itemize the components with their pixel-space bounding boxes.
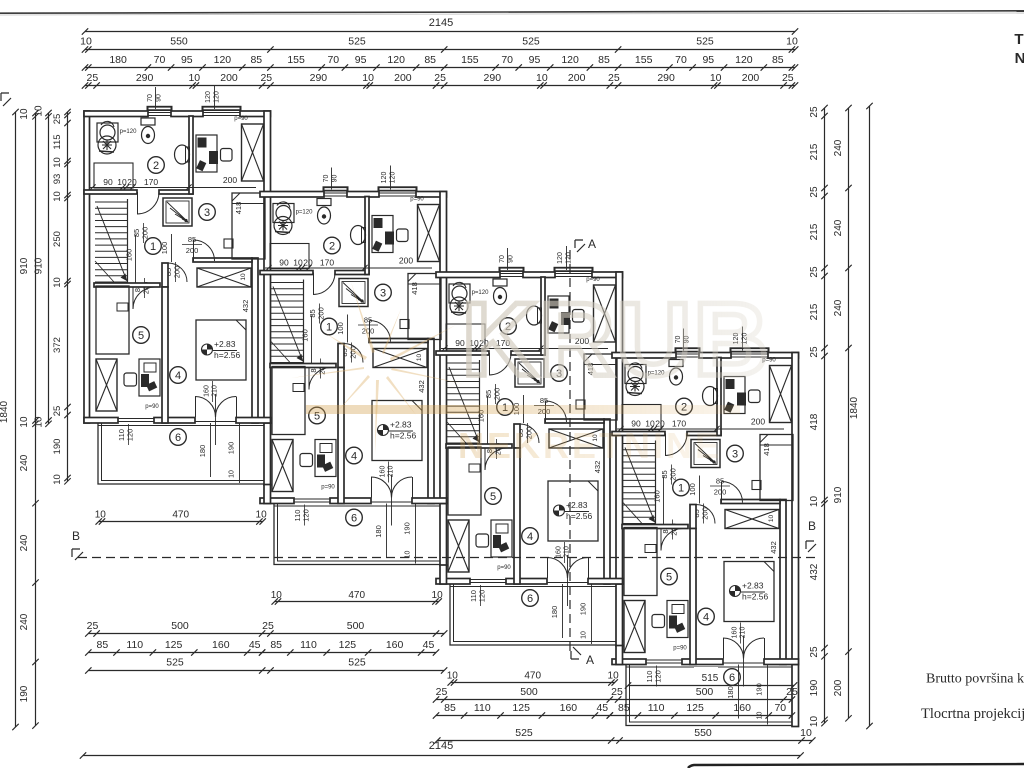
svg-text:10: 10: [608, 671, 620, 682]
svg-text:25: 25: [611, 686, 623, 698]
svg-text:155: 155: [287, 54, 305, 66]
watermark logo star: [291, 282, 464, 454]
svg-text:2145: 2145: [429, 17, 453, 29]
svg-text:200: 200: [833, 679, 844, 696]
svg-text:10: 10: [52, 474, 63, 485]
svg-text:70: 70: [327, 54, 339, 66]
svg-text:B: B: [808, 519, 816, 533]
svg-text:70: 70: [774, 702, 786, 714]
svg-text:95: 95: [355, 54, 367, 66]
svg-text:85: 85: [772, 54, 784, 66]
svg-text:85: 85: [97, 639, 109, 651]
svg-text:200: 200: [742, 72, 760, 84]
svg-text:10: 10: [19, 108, 30, 120]
svg-text:25: 25: [782, 72, 794, 84]
svg-text:418: 418: [809, 413, 820, 430]
top chain row3: [85, 67, 795, 69]
apartment unit 4: [612, 327, 799, 727]
svg-text:910: 910: [833, 486, 844, 503]
svg-text:120: 120: [387, 54, 405, 66]
left chain 1840: [15, 112, 17, 727]
svg-text:470: 470: [348, 590, 365, 601]
svg-text:160: 160: [212, 639, 230, 651]
svg-text:25: 25: [434, 72, 446, 84]
svg-text:160: 160: [733, 702, 751, 714]
svg-text:550: 550: [170, 36, 188, 48]
svg-text:95: 95: [529, 54, 541, 66]
svg-text:85: 85: [424, 54, 436, 66]
svg-text:1840: 1840: [0, 400, 10, 423]
svg-text:10: 10: [256, 510, 268, 521]
svg-text:10: 10: [271, 590, 283, 601]
svg-text:25: 25: [436, 686, 448, 698]
svg-text:10: 10: [432, 590, 444, 601]
svg-text:525: 525: [522, 36, 540, 48]
svg-text:372: 372: [52, 337, 63, 353]
svg-text:240: 240: [19, 534, 30, 551]
svg-text:10: 10: [52, 277, 63, 288]
svg-text:A: A: [586, 653, 594, 667]
svg-text:85: 85: [618, 702, 630, 714]
left chain 910/240: [35, 113, 37, 726]
top chain row2: [85, 49, 795, 51]
svg-text:10: 10: [710, 72, 722, 84]
svg-text:25: 25: [52, 114, 63, 125]
svg-text:NEKRETNINE: NEKRETNINE: [458, 425, 722, 466]
svg-text:85: 85: [250, 54, 262, 66]
svg-text:85: 85: [444, 702, 456, 714]
svg-text:290: 290: [310, 72, 328, 84]
svg-text:Tlocrtna projekcija: Tlocrtna projekcija: [921, 706, 1024, 722]
svg-text:500: 500: [171, 620, 189, 632]
svg-text:70: 70: [154, 54, 166, 66]
svg-text:25: 25: [262, 620, 274, 632]
right chain 1840: [869, 106, 871, 726]
svg-text:110: 110: [126, 639, 143, 651]
svg-text:25: 25: [809, 266, 820, 278]
top-left corner mark: [1, 93, 11, 106]
left chain 910 second: [48, 113, 50, 424]
svg-text:200: 200: [394, 72, 412, 84]
svg-text:125: 125: [512, 702, 530, 714]
svg-text:93: 93: [52, 174, 63, 185]
svg-text:110: 110: [300, 639, 317, 651]
svg-text:240: 240: [833, 219, 844, 236]
svg-text:25: 25: [809, 646, 820, 658]
svg-text:10: 10: [536, 72, 548, 84]
svg-text:95: 95: [181, 54, 193, 66]
scan top border: [0, 11, 1024, 13]
unit1 left outer wall: [84, 111, 90, 423]
svg-text:525: 525: [696, 36, 714, 48]
svg-text:70: 70: [501, 54, 513, 66]
svg-text:25: 25: [809, 106, 820, 118]
svg-text:25: 25: [52, 406, 63, 417]
svg-text:45: 45: [596, 702, 608, 714]
section line A: [569, 250, 571, 655]
svg-text:125: 125: [686, 702, 704, 714]
right chain 240s: [848, 108, 850, 718]
bottom chains units 1-2: [88, 633, 444, 635]
svg-text:290: 290: [657, 72, 675, 84]
svg-text:190: 190: [52, 439, 63, 455]
svg-text:6: 6: [729, 672, 735, 684]
svg-text:500: 500: [347, 620, 365, 632]
svg-text:160: 160: [386, 639, 404, 651]
svg-text:525: 525: [166, 657, 184, 669]
svg-text:25: 25: [608, 72, 620, 84]
terrace dim rows: [99, 521, 263, 523]
svg-text:125: 125: [339, 639, 357, 651]
svg-text:KRUB: KRUB: [462, 282, 770, 398]
svg-text:155: 155: [461, 54, 479, 66]
svg-text:125: 125: [165, 639, 183, 651]
svg-text:190: 190: [19, 685, 30, 702]
svg-text:25: 25: [87, 72, 99, 84]
svg-text:10: 10: [447, 671, 459, 682]
svg-text:500: 500: [520, 686, 538, 698]
svg-text:B: B: [72, 529, 80, 543]
svg-text:115: 115: [52, 134, 63, 149]
svg-text:215: 215: [809, 223, 820, 240]
svg-text:500: 500: [696, 686, 714, 698]
svg-text:85: 85: [598, 54, 610, 66]
svg-text:190: 190: [809, 679, 820, 696]
svg-text:2145: 2145: [429, 740, 453, 752]
svg-text:525: 525: [348, 657, 366, 669]
svg-text:A: A: [588, 237, 596, 251]
svg-text:95: 95: [702, 54, 714, 66]
svg-text:10: 10: [34, 105, 45, 117]
svg-text:215: 215: [809, 303, 820, 320]
svg-text:10: 10: [188, 72, 200, 84]
svg-text:10: 10: [19, 416, 30, 428]
svg-text:Brutto površina k: Brutto površina k: [926, 672, 1024, 687]
svg-text:290: 290: [484, 72, 502, 84]
party wall gap fillers: [264, 485, 271, 504]
svg-text:250: 250: [52, 231, 63, 247]
svg-text:120: 120: [214, 54, 232, 66]
svg-text:110: 110: [474, 702, 491, 714]
apartment unit 3: [436, 246, 623, 646]
svg-text:45: 45: [249, 639, 261, 651]
svg-text:85: 85: [270, 639, 282, 651]
svg-text:110: 110: [648, 702, 665, 714]
bottom chains units 3-4: [436, 699, 792, 701]
svg-text:910: 910: [34, 257, 45, 274]
right chain segments: [824, 108, 826, 723]
svg-text:550: 550: [694, 727, 712, 739]
svg-text:25: 25: [809, 346, 820, 358]
svg-text:70: 70: [675, 54, 687, 66]
svg-text:25: 25: [87, 620, 99, 632]
svg-text:10: 10: [95, 510, 107, 521]
svg-text:120: 120: [561, 54, 579, 66]
svg-text:N: N: [1015, 50, 1024, 67]
section line B: [78, 557, 816, 559]
svg-text:180: 180: [109, 54, 127, 66]
svg-text:45: 45: [423, 639, 435, 651]
svg-text:240: 240: [19, 613, 30, 630]
apartment unit 1: [84, 85, 271, 485]
svg-text:525: 525: [348, 36, 366, 48]
svg-text:25: 25: [809, 186, 820, 198]
top chain row4: [85, 85, 795, 87]
svg-text:1840: 1840: [849, 396, 860, 419]
svg-text:T: T: [1014, 31, 1023, 48]
svg-text:470: 470: [172, 510, 189, 521]
svg-text:910: 910: [19, 257, 30, 274]
unit4 515 row: [694, 667, 718, 688]
svg-text:10: 10: [800, 727, 812, 739]
svg-text:10: 10: [362, 72, 374, 84]
svg-text:10: 10: [34, 416, 45, 428]
svg-text:25: 25: [786, 686, 798, 698]
svg-text:10: 10: [52, 191, 63, 202]
svg-text:515: 515: [702, 673, 719, 684]
svg-text:200: 200: [568, 72, 586, 84]
svg-text:525: 525: [515, 727, 533, 739]
watermark underline band: [306, 405, 740, 414]
svg-text:432: 432: [809, 563, 820, 580]
svg-text:25: 25: [260, 72, 272, 84]
svg-text:200: 200: [220, 72, 238, 84]
apartment unit 2: [260, 166, 447, 566]
svg-text:10: 10: [786, 36, 798, 48]
svg-text:470: 470: [524, 671, 541, 682]
svg-text:215: 215: [809, 143, 820, 160]
svg-text:10: 10: [809, 496, 820, 508]
svg-text:155: 155: [635, 54, 653, 66]
svg-text:10: 10: [809, 716, 820, 728]
svg-text:120: 120: [735, 54, 753, 66]
svg-text:10: 10: [52, 157, 63, 168]
svg-text:240: 240: [833, 139, 844, 156]
svg-text:160: 160: [560, 702, 578, 714]
svg-text:240: 240: [833, 299, 844, 316]
svg-text:10: 10: [80, 36, 92, 48]
svg-text:240: 240: [19, 454, 30, 471]
svg-text:290: 290: [136, 72, 154, 84]
left chain room dims: [67, 112, 69, 481]
